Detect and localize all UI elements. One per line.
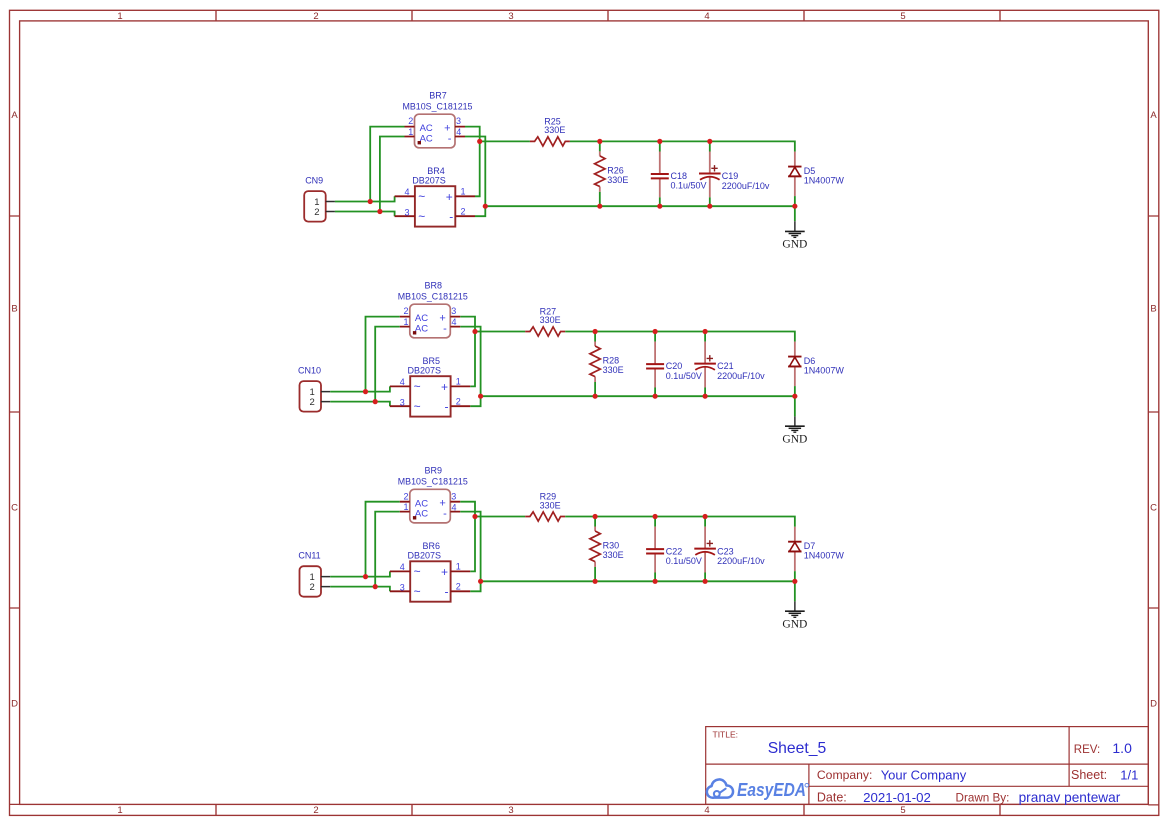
junction bbox=[653, 514, 658, 519]
svg-text:Company:: Company: bbox=[817, 768, 873, 782]
svg-text:B: B bbox=[11, 303, 17, 314]
junction bbox=[377, 209, 382, 214]
svg-text:3: 3 bbox=[451, 306, 456, 316]
junction bbox=[597, 204, 602, 209]
svg-text:2: 2 bbox=[456, 582, 461, 592]
svg-text:+: + bbox=[446, 190, 453, 204]
junction bbox=[597, 139, 602, 144]
junction minus node bbox=[483, 204, 488, 209]
svg-text:1: 1 bbox=[117, 11, 122, 22]
wire bottom rail bbox=[485, 205, 795, 207]
svg-text:pranav pentewar: pranav pentewar bbox=[1019, 789, 1121, 805]
svg-text:2: 2 bbox=[310, 582, 315, 593]
wire top rail to C23 bbox=[704, 517, 706, 527]
junction plus node bbox=[472, 329, 477, 334]
wire to GND bbox=[794, 206, 796, 221]
svg-text:2: 2 bbox=[314, 207, 319, 218]
wire bottom rail bbox=[481, 395, 795, 397]
svg-text:BR6: BR6 bbox=[423, 541, 441, 551]
wire to GND bbox=[794, 581, 796, 601]
capacitor C23 2200uF/10v polarized bbox=[694, 527, 765, 573]
svg-text:C23: C23 bbox=[717, 546, 734, 556]
wire top rail to C22 bbox=[654, 517, 656, 527]
junction bbox=[657, 139, 662, 144]
wire minus rail to BR5.2 bbox=[470, 396, 480, 406]
svg-text:2200uF/10v: 2200uF/10v bbox=[722, 181, 770, 191]
svg-text:2: 2 bbox=[310, 397, 315, 408]
diode D7 1N4007W bbox=[788, 527, 844, 572]
svg-text:R26: R26 bbox=[607, 166, 624, 176]
svg-text:-: - bbox=[445, 400, 449, 414]
svg-text:C20: C20 bbox=[666, 361, 683, 371]
junction bbox=[593, 394, 598, 399]
svg-text:BR7: BR7 bbox=[429, 91, 447, 101]
svg-text:3: 3 bbox=[400, 583, 405, 593]
svg-text:D7: D7 bbox=[804, 541, 816, 551]
svg-text:AC: AC bbox=[415, 313, 428, 324]
svg-text:4: 4 bbox=[456, 127, 461, 137]
resistor R26 330E bbox=[595, 151, 629, 192]
svg-text:-: - bbox=[449, 210, 453, 224]
wire D7 to ground rail bbox=[794, 571, 796, 581]
wire plus node to R25 bbox=[480, 140, 530, 142]
svg-text:2021-01-02: 2021-01-02 bbox=[863, 790, 931, 805]
ground GND bbox=[782, 221, 807, 250]
resistor R27 330E bbox=[525, 307, 565, 337]
wire R27 to top rail bbox=[565, 332, 795, 342]
wire R25 to top rail bbox=[570, 141, 795, 151]
junction bbox=[373, 399, 378, 404]
wire BR8.4 to minus rail bbox=[460, 327, 480, 397]
svg-text:1: 1 bbox=[403, 502, 408, 512]
connector CN9 bbox=[304, 176, 335, 222]
svg-text:1: 1 bbox=[117, 805, 122, 816]
svg-text:R28: R28 bbox=[603, 356, 620, 366]
junction minus node bbox=[478, 394, 483, 399]
svg-text:~: ~ bbox=[414, 379, 421, 393]
EasyEDA logo bbox=[707, 779, 809, 799]
svg-text:BR4: BR4 bbox=[427, 166, 445, 176]
svg-text:330E: 330E bbox=[607, 175, 628, 185]
wire CN11.2 to BR6.3 bbox=[330, 587, 390, 592]
svg-text:AC: AC bbox=[420, 123, 433, 134]
svg-text:GND: GND bbox=[782, 434, 807, 446]
wire plus node to BR4.1 bbox=[475, 141, 480, 196]
junction bbox=[703, 329, 708, 334]
wire top rail to R26 bbox=[599, 141, 601, 151]
svg-text:BR5: BR5 bbox=[423, 356, 441, 366]
junction ground node bbox=[792, 579, 797, 584]
svg-text:330E: 330E bbox=[544, 125, 565, 135]
wire BR7.3 to plus node bbox=[465, 127, 480, 142]
junction bbox=[593, 514, 598, 519]
wire R26 to bottom rail bbox=[599, 192, 601, 206]
wire CN11.1 to BR6.4 bbox=[330, 571, 390, 576]
wire D6 to ground rail bbox=[794, 386, 796, 396]
wire CN10.1 to BR8.2 bbox=[366, 317, 400, 392]
svg-text:D5: D5 bbox=[804, 166, 816, 176]
svg-text:330E: 330E bbox=[540, 315, 561, 325]
connector CN10 bbox=[298, 366, 330, 412]
svg-text:3: 3 bbox=[508, 11, 513, 22]
ground GND bbox=[782, 601, 807, 630]
svg-text:1N4007W: 1N4007W bbox=[804, 176, 845, 186]
svg-text:C21: C21 bbox=[717, 361, 734, 371]
wire C20 to bottom rail bbox=[654, 388, 656, 397]
wire to GND bbox=[794, 396, 796, 416]
wire top rail to C19 bbox=[709, 141, 711, 151]
title block bbox=[10, 727, 1159, 805]
svg-text:0.1u/50V: 0.1u/50V bbox=[666, 556, 702, 566]
svg-text:+: + bbox=[441, 380, 448, 394]
junction bbox=[707, 204, 712, 209]
svg-text:4: 4 bbox=[451, 317, 456, 327]
svg-text:2: 2 bbox=[456, 397, 461, 407]
diode D5 1N4007W bbox=[788, 152, 844, 197]
svg-text:C: C bbox=[11, 502, 18, 513]
svg-text:BR9: BR9 bbox=[425, 466, 443, 476]
svg-text:EasyEDA: EasyEDA bbox=[737, 780, 806, 800]
resistor R25 330E bbox=[530, 116, 570, 146]
svg-text:2: 2 bbox=[460, 207, 465, 217]
svg-text:D6: D6 bbox=[804, 356, 816, 366]
junction bbox=[363, 389, 368, 394]
svg-text:AC: AC bbox=[420, 134, 433, 145]
junction bbox=[653, 394, 658, 399]
junction bbox=[703, 579, 708, 584]
svg-text:DB207S: DB207S bbox=[408, 366, 442, 376]
junction bbox=[373, 584, 378, 589]
junction ground node bbox=[792, 204, 797, 209]
wire C22 to bottom rail bbox=[654, 573, 656, 582]
svg-text:Date:: Date: bbox=[817, 791, 847, 805]
svg-text:-: - bbox=[445, 585, 449, 599]
svg-text:GND: GND bbox=[782, 238, 807, 250]
wire CN11.2 to BR9.1 bbox=[375, 512, 400, 587]
svg-text:1: 1 bbox=[456, 562, 461, 572]
svg-text:1.0: 1.0 bbox=[1112, 740, 1132, 756]
svg-text:2: 2 bbox=[403, 491, 408, 501]
wire top rail to C21 bbox=[704, 332, 706, 342]
svg-text:1: 1 bbox=[456, 377, 461, 387]
svg-text:AC: AC bbox=[415, 509, 428, 520]
bridge rectifier BR6 DB207S bbox=[390, 541, 470, 602]
svg-text:~: ~ bbox=[418, 210, 425, 224]
wire CN9.2 to BR4.3 bbox=[335, 212, 395, 217]
svg-text:~: ~ bbox=[414, 400, 421, 414]
svg-text:3: 3 bbox=[508, 805, 513, 816]
svg-text:3: 3 bbox=[404, 208, 409, 218]
bridge rectifier BR7 MB10S_C181215 bbox=[403, 91, 473, 148]
svg-text:B: B bbox=[1150, 303, 1156, 314]
svg-text:~: ~ bbox=[414, 564, 421, 578]
wire R29 to top rail bbox=[565, 517, 795, 527]
junction plus node bbox=[477, 139, 482, 144]
resistor R28 330E bbox=[590, 342, 624, 383]
svg-text:GND: GND bbox=[782, 619, 807, 631]
svg-text:C19: C19 bbox=[722, 171, 739, 181]
svg-text:5: 5 bbox=[900, 805, 905, 816]
svg-text:-: - bbox=[443, 323, 447, 335]
resistor R30 330E bbox=[590, 527, 624, 568]
svg-text:3: 3 bbox=[400, 398, 405, 408]
ground GND bbox=[782, 416, 807, 445]
svg-text:330E: 330E bbox=[603, 550, 624, 560]
svg-text:2: 2 bbox=[403, 306, 408, 316]
svg-text:~: ~ bbox=[414, 585, 421, 599]
wire BR9.4 to minus rail bbox=[460, 512, 480, 582]
wire CN9.2 to BR7.1 bbox=[380, 137, 405, 212]
svg-text:D: D bbox=[1150, 698, 1157, 709]
svg-text:1: 1 bbox=[408, 127, 413, 137]
svg-text:4: 4 bbox=[404, 187, 409, 197]
svg-text:MB10S_C181215: MB10S_C181215 bbox=[398, 477, 468, 487]
junction bbox=[653, 579, 658, 584]
junction bbox=[703, 514, 708, 519]
svg-text:2: 2 bbox=[313, 805, 318, 816]
wire plus node to R29 bbox=[475, 516, 525, 518]
svg-text:-: - bbox=[448, 133, 452, 145]
svg-text:330E: 330E bbox=[603, 365, 624, 375]
svg-text:MB10S_C181215: MB10S_C181215 bbox=[398, 292, 468, 302]
wire CN10.1 to BR5.4 bbox=[330, 386, 390, 391]
capacitor C19 2200uF/10v polarized bbox=[699, 152, 770, 198]
svg-text:A: A bbox=[1150, 110, 1157, 121]
bridge rectifier BR9 MB10S_C181215 bbox=[398, 466, 468, 523]
svg-text:1: 1 bbox=[403, 317, 408, 327]
svg-text:MB10S_C181215: MB10S_C181215 bbox=[403, 101, 473, 111]
wire CN10.2 to BR8.1 bbox=[375, 327, 400, 402]
svg-text:-: - bbox=[443, 508, 447, 520]
junction bbox=[593, 579, 598, 584]
svg-text:330E: 330E bbox=[540, 500, 561, 510]
svg-text:4: 4 bbox=[704, 11, 709, 22]
svg-text:TITLE:: TITLE: bbox=[713, 729, 739, 739]
svg-text:A: A bbox=[11, 110, 18, 121]
bridge rectifier BR4 DB207S bbox=[395, 166, 475, 227]
wire D5 to ground rail bbox=[794, 196, 796, 206]
bridge rectifier BR8 MB10S_C181215 bbox=[398, 281, 468, 338]
wire bottom rail bbox=[481, 580, 795, 582]
svg-text:1/1: 1/1 bbox=[1120, 767, 1138, 782]
junction plus node bbox=[472, 514, 477, 519]
svg-text:4: 4 bbox=[704, 805, 709, 816]
svg-text:1N4007W: 1N4007W bbox=[804, 366, 845, 376]
svg-text:R30: R30 bbox=[603, 541, 620, 551]
junction bbox=[707, 139, 712, 144]
svg-text:C: C bbox=[1150, 502, 1157, 513]
wire CN9.1 to BR4.4 bbox=[335, 196, 395, 201]
svg-text:4: 4 bbox=[451, 502, 456, 512]
wire minus rail to BR4.2 bbox=[475, 206, 485, 216]
wire C23 to bottom rail bbox=[704, 573, 706, 582]
svg-text:CN9: CN9 bbox=[305, 176, 323, 186]
junction bbox=[593, 329, 598, 334]
svg-text:DB207S: DB207S bbox=[412, 176, 446, 186]
svg-text:3: 3 bbox=[451, 491, 456, 501]
connector CN11 bbox=[298, 551, 330, 597]
capacitor C20 0.1u/50V bbox=[646, 342, 702, 388]
wire BR9.3 to plus node bbox=[460, 502, 475, 517]
svg-text:CN10: CN10 bbox=[298, 366, 321, 376]
svg-text:D: D bbox=[11, 698, 18, 709]
svg-text:Drawn By:: Drawn By: bbox=[956, 791, 1010, 805]
svg-text:Sheet:: Sheet: bbox=[1071, 768, 1107, 782]
svg-text:1: 1 bbox=[460, 186, 465, 196]
wire CN10.2 to BR5.3 bbox=[330, 402, 390, 407]
wire CN9.1 to BR7.2 bbox=[370, 127, 404, 202]
junction minus node bbox=[478, 579, 483, 584]
svg-text:Your Company: Your Company bbox=[881, 767, 967, 782]
junction ground node bbox=[792, 394, 797, 399]
svg-text:AC: AC bbox=[415, 498, 428, 509]
junction bbox=[653, 329, 658, 334]
svg-text:5: 5 bbox=[900, 11, 905, 22]
svg-text:C22: C22 bbox=[666, 546, 683, 556]
svg-text:0.1u/50V: 0.1u/50V bbox=[671, 181, 707, 191]
wire BR7.4 to minus rail bbox=[465, 137, 485, 207]
svg-text:3: 3 bbox=[456, 116, 461, 126]
wire top rail to R30 bbox=[594, 517, 596, 527]
svg-text:CN11: CN11 bbox=[298, 551, 320, 561]
svg-text:BR8: BR8 bbox=[425, 281, 443, 291]
bridge rectifier BR5 DB207S bbox=[390, 356, 470, 417]
svg-text:2: 2 bbox=[408, 116, 413, 126]
wire R28 to bottom rail bbox=[594, 382, 596, 396]
svg-text:4: 4 bbox=[400, 562, 405, 572]
wire top rail to C18 bbox=[659, 141, 661, 151]
capacitor C22 0.1u/50V bbox=[646, 527, 702, 573]
svg-text:2200uF/10v: 2200uF/10v bbox=[717, 371, 765, 381]
wire top rail to R28 bbox=[594, 332, 596, 342]
wire plus node to R27 bbox=[475, 331, 525, 333]
resistor R29 330E bbox=[525, 492, 565, 522]
wire R30 to bottom rail bbox=[594, 567, 596, 581]
svg-text:AC: AC bbox=[415, 324, 428, 335]
wire plus node to BR6.1 bbox=[470, 517, 475, 572]
svg-text:~: ~ bbox=[418, 189, 425, 203]
wire C18 to bottom rail bbox=[659, 197, 661, 206]
svg-text:C18: C18 bbox=[671, 171, 688, 181]
wire CN11.1 to BR9.2 bbox=[366, 502, 400, 577]
svg-text:REV:: REV: bbox=[1074, 744, 1100, 756]
diode D6 1N4007W bbox=[788, 342, 844, 387]
svg-text:1N4007W: 1N4007W bbox=[804, 551, 845, 561]
svg-text:4: 4 bbox=[400, 377, 405, 387]
capacitor C21 2200uF/10v polarized bbox=[694, 342, 765, 388]
junction bbox=[363, 574, 368, 579]
wire top rail to C20 bbox=[654, 332, 656, 342]
svg-text:2: 2 bbox=[313, 11, 318, 22]
wire BR8.3 to plus node bbox=[460, 317, 475, 332]
wire plus node to BR5.1 bbox=[470, 332, 475, 387]
wire C19 to bottom rail bbox=[709, 197, 711, 206]
junction bbox=[703, 394, 708, 399]
svg-text:2200uF/10v: 2200uF/10v bbox=[717, 556, 765, 566]
svg-text:0.1u/50V: 0.1u/50V bbox=[666, 371, 702, 381]
wire minus rail to BR6.2 bbox=[470, 581, 480, 591]
svg-text:Sheet_5: Sheet_5 bbox=[768, 740, 827, 757]
capacitor C18 0.1u/50V bbox=[651, 152, 707, 198]
svg-text:+: + bbox=[441, 565, 448, 579]
svg-text:DB207S: DB207S bbox=[408, 551, 442, 561]
junction bbox=[368, 199, 373, 204]
junction bbox=[657, 204, 662, 209]
wire C21 to bottom rail bbox=[704, 388, 706, 397]
